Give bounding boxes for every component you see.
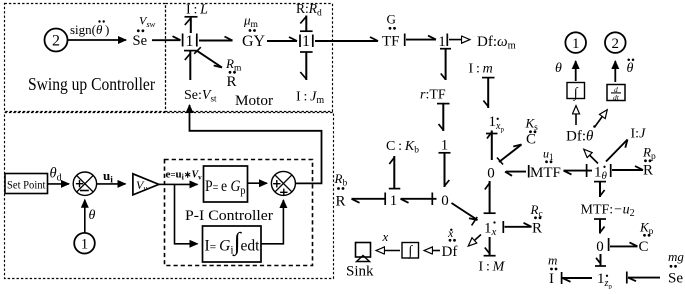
svg-text:G: G	[387, 12, 396, 27]
bond 1 motor to TF	[315, 37, 378, 41]
svg-text:sign(θ ): sign(θ )	[70, 22, 109, 37]
source Se mg	[668, 249, 684, 287]
resistor R Rp	[642, 145, 656, 179]
wire P block to summer 2	[248, 182, 267, 184]
svg-text:x: x	[447, 226, 454, 240]
motor label	[235, 93, 273, 109]
integrator box (x)	[402, 243, 419, 260]
junction 0 (xp)	[487, 165, 495, 181]
signal 1x to Df	[469, 235, 482, 246]
inertia I m	[548, 253, 557, 288]
svg-text:1zp: 1zp	[597, 271, 612, 289]
svg-text:θ: θ	[627, 61, 634, 76]
svg-text:1: 1	[438, 34, 446, 50]
junction 0 (x)	[441, 193, 449, 209]
signal Df to d/dt box	[595, 110, 607, 127]
signal Df to integrator	[425, 250, 441, 252]
wire integrator to node 1	[575, 61, 577, 81]
svg-text:R: R	[227, 74, 237, 90]
motor dashed box	[166, 4, 333, 112]
signal integrator to sink	[377, 250, 401, 252]
bond 1zp to I m	[562, 272, 592, 284]
resistor R:Rd	[296, 1, 322, 19]
svg-text:0: 0	[487, 165, 495, 181]
wire node2 to Se	[68, 39, 127, 41]
bond 0 to 1x (diagonal)	[452, 203, 478, 225]
bond 1 to r:TF	[440, 49, 451, 80]
junction 1x	[484, 221, 497, 239]
inertia I:M	[479, 260, 506, 275]
node 2 (swing-up source circle)	[45, 29, 68, 52]
svg-text:θ: θ	[555, 61, 562, 76]
svg-text:0: 0	[596, 239, 604, 255]
junction 1 (Kb)	[390, 193, 398, 209]
svg-text:Rm: Rm	[225, 56, 242, 74]
svg-text:R:Rd: R:Rd	[296, 1, 322, 19]
wire amplifier to branch	[159, 183, 175, 185]
svg-text:mg: mg	[668, 249, 684, 264]
set point block	[5, 174, 48, 194]
svg-text:C: C	[526, 132, 536, 148]
swing up controller label	[28, 74, 155, 94]
label x	[382, 229, 389, 244]
svg-text:MTF: MTF	[530, 165, 561, 181]
junction 1 (omega_m)	[438, 34, 447, 50]
label theta	[555, 61, 562, 76]
inertia I:J	[631, 127, 647, 142]
svg-text:dt: dt	[613, 93, 620, 102]
svg-text:1: 1	[572, 36, 580, 52]
svg-text:R: R	[336, 194, 346, 210]
P-I controller dashed box	[165, 160, 313, 266]
signal Df to integrator box	[575, 106, 577, 125]
bond 1 to C:Kb	[389, 156, 401, 189]
summer 2	[271, 171, 295, 196]
bond MTF to 0	[505, 172, 526, 176]
controller outer dashed box	[5, 113, 334, 279]
wire set point to summer	[48, 183, 70, 185]
bond 1 to 0	[439, 153, 451, 187]
transformer TF G	[382, 12, 400, 50]
capacitor C Ks	[525, 116, 539, 148]
bond 1 to Rm	[194, 47, 222, 67]
bond GY to 1 (motor right)	[267, 35, 300, 48]
inertia I:L	[186, 3, 208, 18]
svg-text:1: 1	[186, 33, 194, 50]
svg-text:C: C	[639, 239, 649, 255]
wire branch to P block	[175, 183, 198, 185]
svg-text:I:J: I:J	[631, 127, 647, 142]
svg-text:Rb: Rb	[334, 171, 348, 189]
svg-text:GY: GY	[242, 33, 266, 50]
transformer MTF u1	[529, 147, 561, 181]
junction 1theta	[594, 165, 608, 183]
bond MTF:-u2 to 0	[594, 219, 606, 234]
svg-text:Kp: Kp	[639, 220, 654, 238]
bond r:TF to 1	[437, 104, 450, 131]
svg-text:Se:Vst: Se:Vst	[184, 88, 217, 104]
svg-text:Set Point: Set Point	[7, 180, 46, 192]
transformer MTF:-u2	[581, 203, 635, 220]
bond 1x to Rc	[503, 221, 531, 233]
svg-text:Se: Se	[668, 271, 683, 287]
svg-text:1: 1	[441, 138, 449, 154]
resistor R Rb	[334, 171, 348, 210]
svg-text:x: x	[382, 229, 389, 244]
bond 0 to C Kp	[609, 238, 638, 251]
svg-text:1: 1	[302, 33, 310, 50]
svg-text:R: R	[643, 163, 653, 179]
svg-text:I : M: I : M	[479, 260, 506, 275]
svg-text:C : Kb: C : Kb	[386, 139, 419, 156]
svg-text:I : m: I : m	[469, 62, 493, 77]
svg-text:Df: Df	[442, 244, 458, 260]
svg-text:e=ui∗Vv: e=ui∗Vv	[166, 169, 203, 182]
I block	[203, 226, 262, 262]
gyrator GY mu_m	[242, 13, 266, 51]
junction 1xp	[489, 114, 505, 134]
junction 1 (mid column)	[441, 138, 449, 154]
svg-text:0: 0	[441, 193, 449, 209]
detector Df:thetadot	[566, 125, 596, 144]
svg-text:1: 1	[390, 193, 398, 209]
svg-text:Df:θ: Df:θ	[566, 129, 594, 145]
bond 1x to I:M	[484, 237, 496, 256]
integrator box	[567, 83, 585, 102]
bond 0 to C:Ks (diagonal)	[497, 145, 522, 165]
label u_i	[103, 168, 113, 186]
svg-text:Vsw: Vsw	[139, 14, 156, 30]
bond R:Rd to 1	[300, 16, 313, 32]
svg-text:I : Jm: I : Jm	[296, 90, 324, 107]
svg-text:m: m	[548, 253, 557, 268]
bond 0 to 1xp	[486, 131, 498, 161]
amplifier Vv	[133, 174, 159, 195]
svg-text:Df:ωm: Df:ωm	[477, 34, 516, 52]
label sign(theta..)	[70, 20, 109, 37]
svg-text:I: I	[549, 271, 554, 287]
bond 1theta to MTF	[564, 164, 593, 177]
sink label	[346, 264, 374, 280]
resistor R Rc	[530, 202, 543, 237]
swing up controller dashed box	[5, 4, 166, 112]
bond 1xp to I:m	[482, 78, 495, 108]
feedback wire summer2 to Se:Vst	[190, 105, 322, 183]
svg-text:MTF:−u2: MTF:−u2	[581, 203, 635, 220]
bond TF to 1	[405, 34, 436, 47]
bond 1 to GY	[199, 37, 233, 41]
node 1 (theta input circle)	[74, 233, 95, 254]
svg-text:u1: u1	[543, 147, 554, 163]
P block	[204, 166, 248, 202]
bond 1theta to I:J	[606, 140, 628, 162]
inertia I:m	[469, 62, 493, 77]
bond 0 to 1 (Kb row)	[401, 193, 437, 206]
svg-text:θd: θd	[50, 166, 62, 184]
svg-text:I= Gi∫edt: I= Gi∫edt	[205, 229, 261, 257]
transformer r:TF	[420, 88, 446, 103]
svg-text:Se: Se	[133, 33, 148, 49]
bond 1theta to MTF:-u2	[594, 182, 606, 197]
bond 1 to Rb	[352, 193, 387, 206]
junction 1 (motor left)	[186, 33, 197, 50]
node 2 (thetaddot output circle)	[605, 32, 626, 53]
wire d/dt to node 2	[614, 61, 616, 82]
wire I block to summer 2	[261, 200, 283, 244]
summer 1	[73, 172, 96, 195]
svg-text:2: 2	[612, 36, 620, 52]
wire summer to amplifier	[97, 183, 126, 185]
bond 1 to I:L	[185, 17, 198, 33]
wire branch down to I block	[175, 184, 198, 243]
label e=ui*Vv	[166, 169, 203, 182]
svg-text:Swing up Controller: Swing up Controller	[28, 74, 155, 94]
capacitor C:Kb	[386, 139, 419, 156]
resistor R Rm	[225, 56, 242, 90]
source Se Vsw	[133, 14, 156, 50]
svg-text:1: 1	[81, 237, 89, 253]
bond 1x to 0 (up)	[484, 181, 496, 214]
signal 1theta to Df:thetadot	[584, 150, 598, 164]
junction 1 (motor right)	[302, 33, 313, 50]
bond Se to 1zp	[627, 272, 660, 284]
bond 1 to I:Jm	[300, 52, 313, 80]
svg-text:Sink: Sink	[346, 264, 374, 280]
detector Df xdot	[442, 226, 458, 260]
signal to Df:omega_m	[449, 39, 470, 41]
svg-text:R: R	[532, 221, 542, 237]
detector Df:omega_m	[477, 34, 516, 52]
capacitor C Kp	[639, 220, 654, 256]
label thetaddot	[627, 59, 635, 76]
bond 0 to 1zp	[595, 254, 606, 266]
svg-text:μm: μm	[243, 13, 259, 31]
inertia I:Jm	[296, 90, 324, 107]
bond Se to 1 motor	[152, 34, 183, 47]
bond 1theta to Rp	[611, 164, 643, 177]
node 1 (theta output circle)	[565, 32, 586, 53]
svg-text:2: 2	[52, 33, 60, 50]
svg-text:Rp: Rp	[642, 145, 656, 163]
junction 1zp	[597, 271, 612, 291]
svg-text:Vv: Vv	[136, 178, 147, 193]
label theta feedback	[89, 208, 96, 223]
svg-text:P= e Gp: P= e Gp	[205, 178, 246, 197]
label theta_d	[50, 166, 62, 184]
wire node1 to summer 1	[84, 200, 86, 233]
svg-text:r:TF: r:TF	[420, 88, 446, 103]
svg-text:Motor: Motor	[235, 93, 273, 109]
svg-text:I : L: I : L	[186, 3, 208, 18]
d/dt box	[607, 85, 625, 102]
junction 0 (zp)	[596, 239, 604, 255]
sink icon	[356, 243, 371, 262]
svg-text:TF: TF	[382, 34, 400, 50]
svg-text:ui: ui	[103, 168, 113, 186]
svg-text:P-I Controller: P-I Controller	[185, 208, 273, 224]
P-I controller label	[185, 208, 273, 224]
svg-text:∫: ∫	[407, 244, 413, 259]
svg-text:Ks: Ks	[525, 116, 539, 134]
svg-text:θ: θ	[89, 208, 96, 223]
source Se:Vst	[184, 88, 217, 104]
bond Se:Vst to 1	[184, 51, 197, 80]
